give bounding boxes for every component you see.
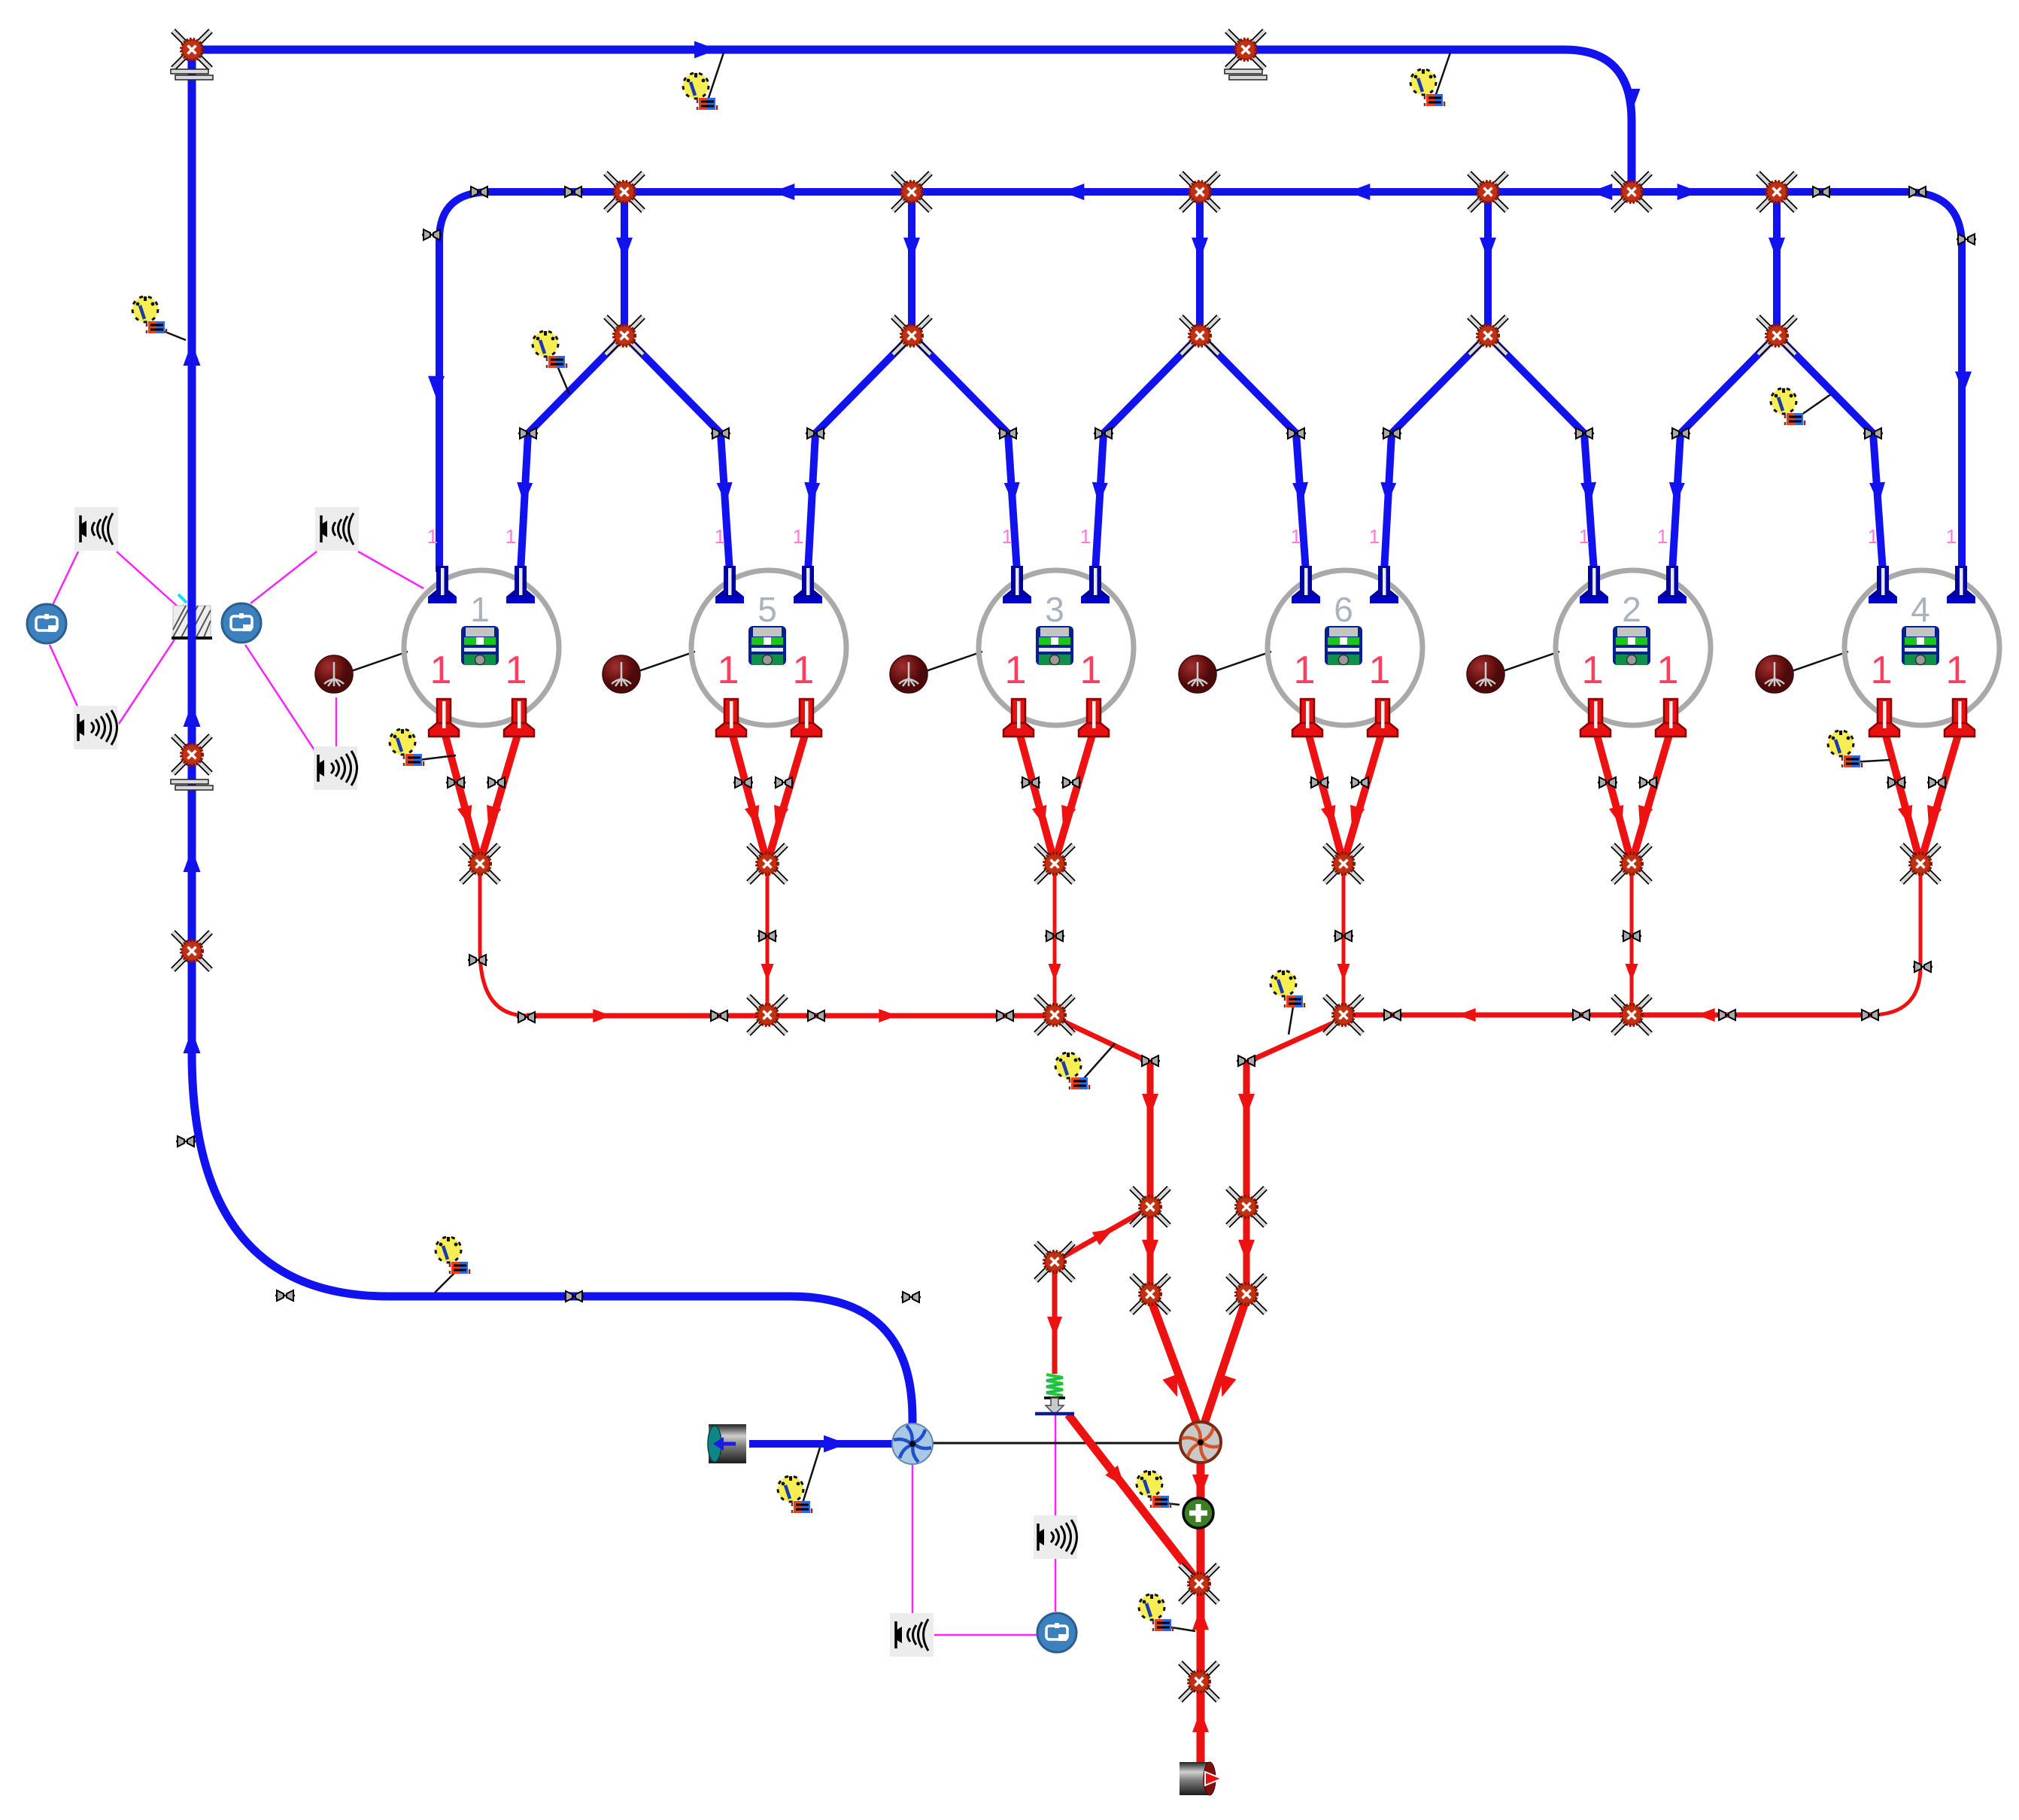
svg-text:1: 1 <box>1005 649 1027 692</box>
svg-text:1: 1 <box>715 525 725 548</box>
svg-text:1: 1 <box>1871 649 1893 692</box>
svg-text:1: 1 <box>430 649 452 692</box>
svg-text:1: 1 <box>1002 525 1013 548</box>
svg-text:1: 1 <box>1080 525 1091 548</box>
svg-text:1: 1 <box>1294 649 1316 692</box>
svg-text:2: 2 <box>1622 590 1641 629</box>
svg-text:4: 4 <box>1911 590 1930 629</box>
svg-text:1: 1 <box>1291 525 1301 548</box>
svg-text:1: 1 <box>506 649 527 692</box>
svg-text:1: 1 <box>1946 525 1957 548</box>
svg-text:1: 1 <box>1657 525 1668 548</box>
svg-text:1: 1 <box>1582 649 1604 692</box>
svg-text:1: 1 <box>427 525 438 548</box>
svg-text:3: 3 <box>1045 590 1064 629</box>
svg-text:1: 1 <box>1946 649 1968 692</box>
svg-text:1: 1 <box>793 525 803 548</box>
svg-text:1: 1 <box>506 525 516 548</box>
svg-text:5: 5 <box>758 590 777 629</box>
svg-text:6: 6 <box>1334 590 1353 629</box>
svg-text:1: 1 <box>1369 525 1380 548</box>
svg-text:1: 1 <box>1657 649 1679 692</box>
svg-text:1: 1 <box>1080 649 1102 692</box>
svg-text:1: 1 <box>470 590 490 629</box>
svg-text:1: 1 <box>718 649 739 692</box>
svg-text:1: 1 <box>1369 649 1391 692</box>
svg-text:1: 1 <box>793 649 815 692</box>
svg-text:1: 1 <box>1579 525 1589 548</box>
svg-text:1: 1 <box>1868 525 1878 548</box>
